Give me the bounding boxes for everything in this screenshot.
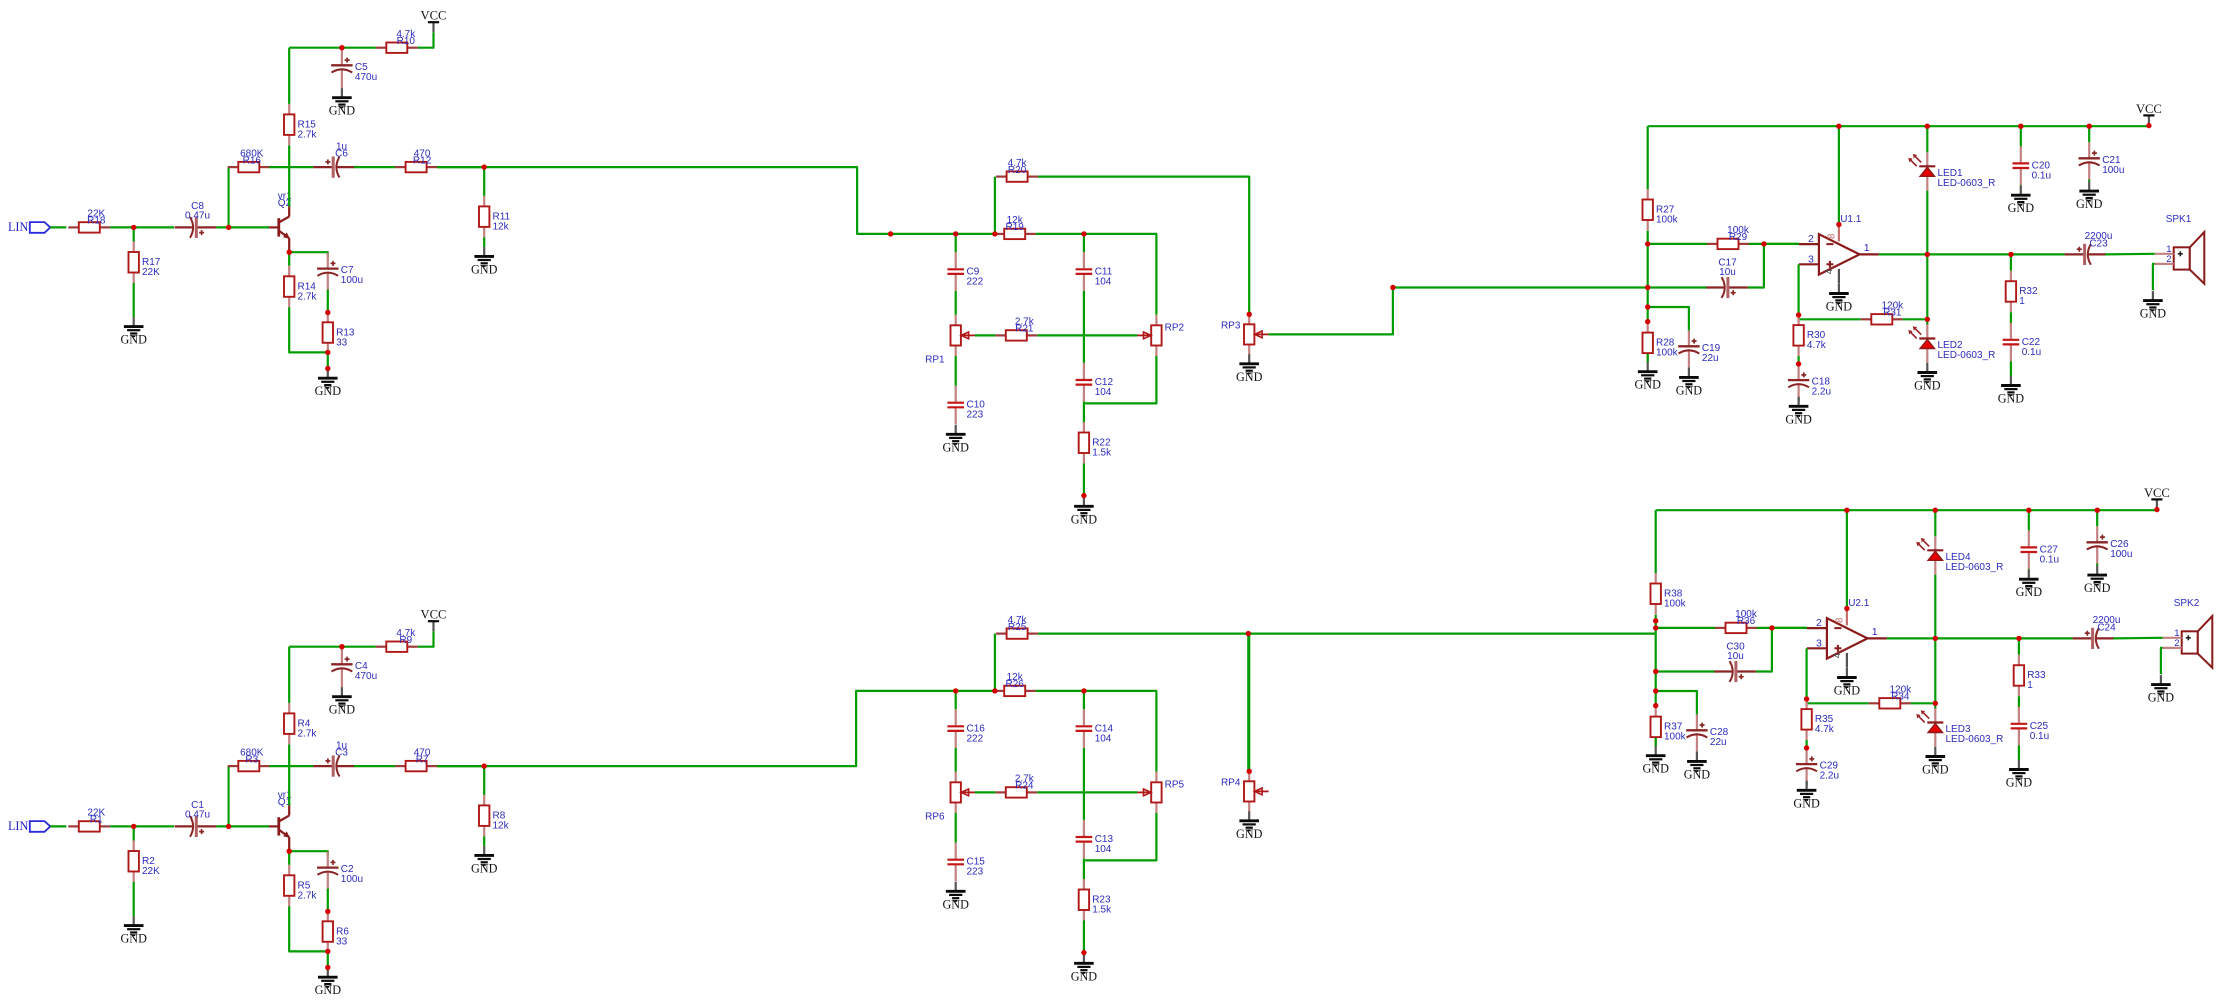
wire	[483, 237, 485, 247]
junction	[1247, 312, 1252, 317]
wire	[1772, 627, 1807, 629]
resistor R28	[1643, 322, 1679, 364]
svg-text:GND: GND	[329, 104, 356, 118]
wire	[2153, 264, 2155, 290]
svg-text:0.47u: 0.47u	[185, 210, 210, 221]
svg-text:GND: GND	[471, 861, 498, 875]
junction	[953, 231, 958, 236]
svg-text:2: 2	[2166, 254, 2171, 265]
svg-text:R29: R29	[1729, 232, 1748, 243]
svg-text:GND: GND	[1922, 763, 1949, 777]
wire	[1748, 244, 1764, 288]
svg-text:LIN: LIN	[8, 220, 29, 234]
ground	[2076, 182, 2103, 212]
wire	[1807, 702, 1869, 704]
capacitor C5	[331, 49, 377, 88]
capacitor C25	[2011, 707, 2050, 746]
svg-text:GND: GND	[1634, 378, 1661, 392]
junction	[992, 231, 997, 236]
svg-text:22K: 22K	[142, 267, 160, 278]
junction	[1796, 312, 1801, 317]
svg-text:22K: 22K	[142, 866, 160, 877]
svg-text:R21: R21	[1015, 324, 1034, 335]
junction	[287, 250, 292, 255]
junction	[2154, 507, 2159, 512]
junction	[1081, 231, 1086, 236]
resistor R21	[995, 317, 1037, 341]
svg-text:R25: R25	[1008, 622, 1027, 633]
junction	[287, 849, 292, 854]
resistor R2	[129, 841, 161, 883]
ground	[315, 968, 342, 998]
junction	[325, 949, 330, 954]
wire	[1083, 291, 1085, 363]
svg-text:C24: C24	[2097, 623, 2116, 634]
wire	[1926, 191, 1928, 319]
junction	[325, 366, 330, 371]
wire	[437, 691, 995, 766]
svg-text:1.5k: 1.5k	[1092, 448, 1112, 459]
resistor R8	[479, 795, 510, 837]
ground	[329, 687, 356, 717]
svg-text:0.1u: 0.1u	[2032, 170, 2051, 181]
potentiometer RP6	[925, 772, 975, 823]
junction	[482, 763, 487, 768]
wire	[2113, 637, 2162, 640]
junction	[226, 824, 231, 829]
svg-text:4: 4	[1832, 652, 1843, 658]
svg-text:R7: R7	[416, 754, 429, 765]
wire	[133, 227, 135, 241]
svg-text:R26: R26	[1006, 679, 1025, 690]
svg-text:222: 222	[967, 276, 984, 287]
ground	[1785, 397, 1812, 427]
resistor R29	[1707, 225, 1750, 249]
op-amp U1.1	[1799, 214, 1879, 274]
resistor R16	[228, 148, 270, 172]
wire	[1764, 243, 1799, 245]
junction	[1933, 701, 1938, 706]
svg-text:VCC: VCC	[421, 608, 447, 622]
ground	[942, 425, 969, 455]
ground	[1071, 954, 1098, 984]
capacitor C1	[175, 800, 217, 837]
svg-text:R1: R1	[90, 815, 103, 826]
resistor R10	[376, 29, 418, 53]
svg-text:GND: GND	[120, 333, 147, 347]
wire	[955, 813, 957, 843]
capacitor C9	[947, 252, 983, 291]
svg-text:GND: GND	[1914, 379, 1941, 393]
svg-text:GND: GND	[1676, 383, 1703, 397]
wire	[1805, 740, 1807, 748]
wire	[1749, 243, 1799, 245]
wire	[327, 889, 329, 912]
wire	[50, 226, 66, 228]
resistor R17	[129, 242, 161, 284]
resistor R38	[1651, 573, 1687, 615]
resistor R9	[376, 628, 418, 652]
capacitor C3	[313, 741, 355, 777]
resistor R25	[996, 615, 1038, 639]
svg-text:GND: GND	[942, 440, 969, 454]
svg-text:104: 104	[1095, 733, 1112, 744]
capacitor C10	[947, 386, 985, 425]
resistor R24	[995, 774, 1037, 798]
svg-text:2.7k: 2.7k	[298, 728, 318, 739]
ground	[942, 882, 969, 912]
junction	[1836, 124, 1841, 129]
op-amp U2.1	[1807, 598, 1887, 658]
wire	[216, 825, 269, 827]
junction	[2026, 508, 2031, 513]
svg-text:470u: 470u	[355, 671, 377, 682]
input port LIN	[8, 220, 50, 234]
ground	[1793, 781, 1820, 811]
capacitor C26	[2087, 526, 2133, 565]
wire	[1037, 791, 1137, 793]
capacitor C22	[2003, 323, 2042, 362]
capacitor C20	[2013, 146, 2052, 185]
resistor R20	[996, 158, 1038, 182]
wire	[289, 906, 328, 951]
wire	[216, 226, 269, 228]
svg-text:100k: 100k	[1656, 348, 1679, 359]
wire	[1903, 318, 1928, 320]
wire	[269, 166, 313, 168]
wire	[1655, 738, 1657, 747]
resistor R26	[994, 672, 1036, 696]
svg-text:8: 8	[1835, 617, 1846, 623]
junction	[2016, 636, 2021, 641]
wire	[110, 226, 174, 228]
svg-text:100k: 100k	[1664, 732, 1687, 743]
wire	[1084, 813, 1157, 860]
svg-text:GND: GND	[1998, 392, 2025, 406]
wire	[1934, 510, 1936, 536]
resistor R11	[479, 196, 511, 238]
ground	[120, 317, 147, 347]
VCC power	[2136, 102, 2162, 126]
resistor R14	[284, 266, 317, 308]
junction	[2087, 124, 2092, 129]
wire	[227, 167, 230, 227]
capacitor C11	[1076, 252, 1113, 291]
wire	[2161, 648, 2163, 674]
junction	[131, 225, 136, 230]
junction	[2008, 252, 2013, 257]
resistor R15	[284, 104, 317, 145]
wire	[269, 765, 313, 767]
wire	[1655, 615, 1657, 706]
svg-text:1: 1	[1872, 626, 1878, 638]
svg-text:GND: GND	[2016, 585, 2043, 599]
junction	[325, 350, 330, 355]
resistor R34	[1869, 685, 1912, 709]
svg-text:RP6: RP6	[925, 812, 945, 823]
capacitor C30	[1714, 642, 1756, 682]
wire	[354, 166, 395, 168]
potentiometer RP3	[1221, 314, 1269, 355]
ground	[1826, 284, 1853, 314]
wire	[2096, 510, 2098, 526]
svg-text:LED-0603_R: LED-0603_R	[1938, 178, 1996, 189]
svg-text:8: 8	[1827, 233, 1838, 239]
svg-text:223: 223	[967, 410, 984, 421]
svg-text:100u: 100u	[341, 874, 363, 885]
wire	[483, 167, 485, 196]
wire	[288, 252, 290, 266]
svg-text:1: 1	[2027, 680, 2033, 691]
capacitor C29	[1796, 748, 1839, 787]
svg-text:RP2: RP2	[1165, 322, 1185, 333]
junction	[1390, 285, 1395, 290]
wire	[289, 646, 376, 648]
svg-text:GND: GND	[1834, 684, 1861, 698]
junction	[339, 45, 344, 50]
svg-text:1: 1	[1864, 242, 1870, 254]
wire	[975, 334, 995, 336]
svg-text:GND: GND	[315, 384, 342, 398]
svg-text:2.7k: 2.7k	[298, 890, 318, 901]
svg-text:104: 104	[1095, 844, 1112, 855]
resistor R32	[2006, 271, 2038, 313]
potentiometer RP1	[925, 315, 975, 366]
svg-text:C3: C3	[335, 748, 348, 759]
svg-text:100u: 100u	[2102, 165, 2124, 176]
junction	[1081, 950, 1086, 955]
wire	[1688, 367, 1690, 370]
wire	[1656, 691, 1697, 715]
resistor R19	[994, 215, 1036, 239]
capacitor C15	[947, 843, 985, 882]
junction	[1925, 317, 1930, 322]
speaker SPK2	[2163, 598, 2213, 668]
resistor R22	[1079, 422, 1112, 464]
svg-text:GND: GND	[1826, 300, 1853, 314]
resistor R3	[228, 747, 270, 771]
wire	[1083, 403, 1085, 424]
potentiometer RP4	[1221, 771, 1269, 812]
svg-text:22u: 22u	[1702, 353, 1719, 364]
wire	[1656, 627, 1716, 629]
ground	[2140, 291, 2167, 321]
capacitor C6	[313, 142, 355, 178]
svg-text:GND: GND	[2084, 581, 2111, 595]
VCC power	[421, 9, 447, 33]
wire	[1911, 702, 1936, 704]
ground	[1642, 746, 1669, 776]
wire	[1838, 126, 1840, 224]
svg-text:GND: GND	[1785, 412, 1812, 426]
svg-text:R12: R12	[413, 155, 432, 166]
svg-text:R9: R9	[399, 635, 412, 646]
junction	[226, 225, 231, 230]
wire	[1083, 921, 1085, 953]
capacitor C23	[2065, 231, 2113, 265]
capacitor C13	[1076, 820, 1114, 859]
wire	[1805, 781, 1807, 786]
capacitor C2	[317, 852, 363, 891]
svg-text:GND: GND	[2008, 201, 2035, 215]
wire	[1647, 354, 1649, 363]
resistor R35	[1801, 699, 1834, 741]
svg-text:VCC: VCC	[2136, 102, 2162, 116]
capacitor C19	[1678, 330, 1720, 369]
resistor R37	[1651, 706, 1687, 748]
wire	[327, 352, 329, 368]
svg-text:GND: GND	[329, 703, 356, 717]
junction	[325, 310, 330, 315]
svg-text:R18: R18	[87, 216, 106, 227]
junction	[2018, 124, 2023, 129]
junction	[1645, 304, 1650, 309]
junction	[1844, 606, 1849, 611]
svg-text:RP3: RP3	[1221, 321, 1241, 332]
ground	[120, 916, 147, 946]
wire	[1934, 575, 1936, 704]
junction	[1796, 361, 1801, 366]
junction	[325, 965, 330, 970]
wire	[1038, 177, 1249, 315]
wire	[1083, 748, 1085, 820]
resistor R18	[68, 209, 110, 233]
svg-text:0.1u: 0.1u	[2040, 554, 2059, 565]
wire	[2010, 254, 2012, 270]
ground	[1236, 354, 1263, 384]
svg-text:GND: GND	[2076, 197, 2103, 211]
svg-text:R10: R10	[397, 36, 416, 47]
svg-text:104: 104	[1095, 276, 1112, 287]
wire	[437, 765, 484, 767]
svg-text:SPK1: SPK1	[2166, 214, 2192, 225]
wire	[227, 766, 230, 826]
wire	[1846, 653, 1848, 668]
wire	[2028, 568, 2030, 571]
svg-text:GND: GND	[1071, 969, 1098, 983]
svg-text:C6: C6	[335, 149, 348, 160]
junction	[1081, 493, 1086, 498]
svg-text:SPK2: SPK2	[2174, 598, 2200, 609]
svg-text:2: 2	[1816, 617, 1822, 629]
wire	[2088, 180, 2090, 182]
resistor R27	[1643, 189, 1679, 231]
svg-text:LED-0603_R: LED-0603_R	[1946, 734, 2004, 745]
wire	[289, 307, 328, 352]
resistor R7	[395, 747, 437, 771]
wire	[1696, 751, 1698, 754]
wire	[1036, 233, 1084, 235]
wire	[1648, 125, 2149, 127]
junction	[1804, 696, 1809, 701]
potentiometer RP5	[1137, 772, 1184, 813]
wire	[1084, 691, 1157, 772]
wire	[288, 851, 290, 865]
svg-text:33: 33	[336, 936, 348, 947]
junction	[1925, 252, 1930, 257]
svg-text:VCC: VCC	[2144, 486, 2170, 500]
svg-text:2.7k: 2.7k	[298, 129, 318, 140]
svg-text:100u: 100u	[2110, 549, 2132, 560]
wire	[1757, 627, 1807, 629]
svg-text:12k: 12k	[493, 221, 510, 232]
capacitor C7	[317, 253, 363, 292]
wire	[975, 791, 995, 793]
wire	[1084, 234, 1157, 315]
ground	[2084, 566, 2111, 596]
svg-text:GND: GND	[2148, 691, 2175, 705]
wire	[1797, 356, 1799, 364]
svg-text:GND: GND	[1236, 827, 1263, 841]
wire	[955, 291, 957, 315]
wire	[1269, 288, 1648, 335]
svg-text:R36: R36	[1737, 616, 1756, 627]
capacitor C28	[1686, 714, 1728, 753]
junction	[1804, 745, 1809, 750]
junction	[1653, 669, 1658, 674]
ground	[471, 247, 498, 277]
ground	[1998, 376, 2025, 406]
VCC power	[421, 608, 447, 632]
LED LED3	[1916, 709, 2003, 748]
junction	[1761, 241, 1766, 246]
svg-text:0.1u: 0.1u	[2030, 731, 2049, 742]
wire	[1083, 234, 1085, 252]
svg-text:222: 222	[967, 733, 984, 744]
junction	[2146, 123, 2151, 128]
wire	[955, 748, 957, 772]
junction	[953, 688, 958, 693]
svg-text:GND: GND	[120, 932, 147, 946]
svg-text:GND: GND	[1071, 512, 1098, 526]
ground	[1071, 497, 1098, 527]
svg-text:0.1u: 0.1u	[2022, 347, 2041, 358]
junction	[1836, 222, 1841, 227]
wire	[288, 745, 290, 806]
capacitor C14	[1076, 709, 1114, 748]
svg-text:R20: R20	[1008, 165, 1027, 176]
wire	[483, 766, 485, 795]
svg-text:2.2u: 2.2u	[1820, 771, 1839, 782]
transistor Q2	[269, 191, 292, 252]
wire	[1797, 397, 1799, 402]
junction	[1645, 285, 1650, 290]
junction	[131, 824, 136, 829]
wire	[1656, 509, 2157, 511]
wire	[994, 177, 996, 234]
svg-text:10u: 10u	[1727, 651, 1744, 662]
wire	[133, 826, 135, 840]
wire	[418, 32, 434, 48]
wire	[289, 47, 376, 49]
wire	[1038, 634, 1249, 772]
junction	[1925, 124, 1930, 129]
junction	[1081, 688, 1086, 693]
wire	[1648, 286, 1708, 288]
wire	[2105, 253, 2154, 256]
svg-text:3: 3	[1816, 637, 1822, 649]
ground	[329, 88, 356, 118]
capacitor C16	[947, 709, 985, 748]
junction	[1653, 618, 1658, 623]
wire	[1879, 253, 2065, 255]
capacitor C21	[2079, 142, 2125, 181]
resistor R4	[284, 703, 317, 745]
wire	[1248, 632, 1655, 634]
ground	[1922, 747, 1949, 777]
capacitor C8	[175, 201, 217, 238]
wire	[2096, 564, 2098, 566]
